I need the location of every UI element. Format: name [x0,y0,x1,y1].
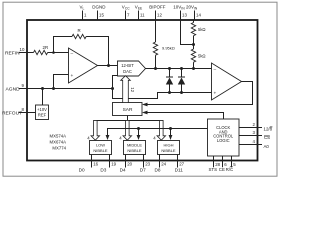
svg-text:+: + [214,92,217,97]
wire SAR to bus rail [127,116,129,121]
bus arrow SAR to DAC [121,76,136,103]
svg-text:MX574A: MX574A [50,133,67,138]
svg-text:REFOUT: REFOUT [2,110,22,116]
low nibble latch [90,141,112,155]
svg-text:D8: D8 [155,167,161,172]
DAC ground stub [113,76,118,89]
svg-text:D0: D0 [79,167,85,172]
bus arrow low nibble [87,121,99,141]
pin VL [80,4,88,20]
svg-text:27: 27 [179,162,184,167]
pin A0 [239,139,269,149]
svg-text:MX674A: MX674A [50,139,67,144]
node D1 bottom [168,91,171,94]
bus arrow high nibble [153,121,165,141]
node enable middle [137,127,140,130]
pin D7 [140,155,151,173]
svg-text:AGND: AGND [6,86,21,92]
svg-text:10: 10 [20,47,25,52]
wire 5k to rail [193,62,195,68]
pin VEE [135,4,145,20]
svg-text:D4: D4 [120,167,126,172]
IC outline box [27,20,258,161]
wire control to SAR [146,113,224,120]
wire data bus rail [94,120,164,122]
pin 10VIN [173,4,187,20]
SAR register box [113,103,143,116]
node REF box on AGND rail [41,87,44,90]
pin BIPOFF [149,4,166,20]
op-amp U1 [69,48,98,83]
node enable high [169,127,172,130]
resistor 9.95k [153,42,174,55]
svg-text:STS: STS [209,167,218,172]
wire comparator output wrap [146,82,253,105]
pin D4 [120,155,133,173]
high nibble latch [158,141,180,155]
wire between 5k resistors [193,36,195,49]
svg-text:NIBBLE: NIBBLE [127,148,142,153]
wire enable middle [138,129,140,137]
wire op-amp output to DAC [98,65,118,67]
pin REFIN [5,47,34,56]
clock and control logic box [208,119,240,156]
wire feedback right leg [86,37,108,66]
svg-text:15: 15 [99,12,104,17]
pin R/C [226,156,237,172]
svg-text:11: 11 [140,12,145,17]
pin VCC [122,4,130,20]
svg-text:12: 12 [130,87,135,92]
diode D1 [166,69,173,93]
middle nibble latch [124,141,146,155]
node feedback junction [52,51,55,54]
svg-text:12-BIT: 12-BIT [121,63,134,68]
wire enable high [170,129,172,137]
pin AGND [6,83,28,92]
border frame [3,2,277,176]
svg-text:12/8: 12/8 [264,127,273,132]
svg-text:CE: CE [219,167,225,172]
svg-text:D11: D11 [175,167,184,172]
svg-text:9.95kΩ: 9.95kΩ [162,46,175,51]
node op-amp output [107,64,110,67]
svg-text:LOGIC: LOGIC [217,138,230,143]
pin DGND [92,4,106,20]
svg-text:+10V: +10V [37,107,47,112]
svg-text:20: 20 [127,162,132,167]
arrowhead enable high [169,135,173,140]
svg-text:BIPOFF: BIPOFF [149,4,166,9]
node DAC ground on AGND rail [111,87,114,90]
svg-text:–: – [71,51,74,56]
pin CS [239,130,270,140]
node 10VIN junction [192,43,195,46]
svg-text:5kΩ: 5kΩ [198,54,206,59]
resistor 5k lower [191,49,205,62]
resistor 5k upper [191,23,205,36]
wire 2R to op-amp inverting input [48,52,69,54]
comparator U3 [212,63,242,100]
svg-text:R/C: R/C [226,167,234,172]
svg-text:NIBBLE: NIBBLE [93,148,108,153]
pin 12/8 [239,122,273,131]
svg-text:A0: A0 [264,144,270,149]
arrowhead into SAR upper [142,103,148,107]
wire AGND jog to comparator [113,89,212,99]
wire BIPOFF leg [155,20,157,42]
wire 9.95k to rail [155,55,157,68]
svg-text:REF: REF [38,112,47,117]
node D2 top [180,67,183,70]
wire op-amp + input [54,75,69,89]
svg-text:5kΩ: 5kΩ [198,27,206,32]
svg-text:DGND: DGND [92,4,106,9]
pin D8 [155,155,167,173]
12-bit DAC U2 [118,61,146,76]
wire AGND rail [27,88,113,90]
resistor R [72,28,86,39]
arrowhead enable low [106,135,110,140]
svg-text:D7: D7 [140,167,146,172]
svg-text:DAC: DAC [123,69,132,74]
svg-text:13: 13 [182,12,187,17]
wire DAC output rail [146,68,212,70]
resistor 2R [34,45,49,55]
arrowhead into SAR lower [142,111,148,115]
wire enable rail [108,129,208,137]
pin D11 [175,155,185,173]
bus arrow middle nibble [119,121,131,141]
wire 20VIN leg [193,20,195,23]
svg-text:12: 12 [157,12,162,17]
arrowhead enable middle [137,135,141,140]
pin REFOUT [2,107,36,116]
svg-text:16: 16 [93,162,98,167]
svg-text:REFIN: REFIN [5,50,20,56]
svg-text:24: 24 [161,162,166,167]
svg-text:D3: D3 [100,167,106,172]
+10V reference box [36,105,49,120]
wire feedback left leg [54,37,73,53]
svg-text:R: R [78,28,81,33]
svg-text:NIBBLE: NIBBLE [161,148,176,153]
svg-text:SAR: SAR [123,107,133,113]
part list MX574A MX674A MX774 [50,133,67,150]
node BIPOFF on rail [154,67,157,70]
pin D0 [79,155,99,173]
svg-text:23: 23 [145,162,150,167]
svg-text:MX774: MX774 [52,145,66,150]
svg-text:14: 14 [196,12,201,17]
pin CE [219,156,227,172]
wire reference box stub [42,89,44,106]
svg-text:19: 19 [111,162,116,167]
pin STS [209,156,221,172]
node input network on rail [192,67,195,70]
pin D3 [100,155,116,173]
svg-text:–: – [214,68,217,73]
svg-text:2R: 2R [43,45,49,50]
diode D2 [178,69,185,93]
node + input on AGND rail [52,87,55,90]
wire 10VIN leg [181,20,194,45]
pin 20VIN [186,4,201,20]
svg-text:+: + [71,74,74,79]
node D1 top [168,67,171,70]
node D2 bottom [180,91,183,94]
